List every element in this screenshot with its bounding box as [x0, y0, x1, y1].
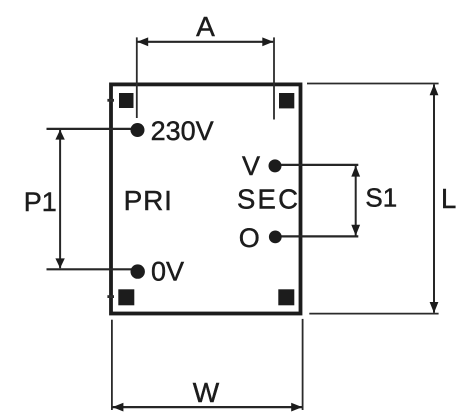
pin O dot	[269, 231, 282, 244]
pin nub on left edge top	[107, 99, 114, 102]
mounting pin square top-right	[279, 93, 294, 108]
mounting pin square top-left	[119, 93, 134, 108]
svg-text:P1: P1	[24, 187, 57, 217]
dimension L arrow up	[430, 84, 439, 95]
transformer outline	[111, 84, 301, 313]
svg-text:L: L	[441, 183, 456, 214]
pin nub on left edge bottom	[107, 295, 114, 298]
dimension L extension line bottom	[309, 313, 438, 315]
svg-text:0V: 0V	[151, 257, 184, 287]
pin 0V dot	[131, 264, 145, 278]
mounting pin square bottom-right	[278, 289, 294, 305]
dimension W arrow right	[291, 403, 302, 412]
svg-text:SEC: SEC	[237, 184, 300, 215]
dimension P1 arrow down	[55, 258, 64, 268]
dimension A extension line left	[136, 37, 138, 118]
dimension A extension line right	[273, 37, 275, 119]
wire O lead	[275, 235, 358, 237]
wire V lead	[275, 164, 358, 166]
svg-text:V: V	[242, 151, 260, 181]
svg-text:PRI: PRI	[124, 185, 173, 216]
dimension S1 line	[355, 166, 357, 236]
pin V dot	[269, 159, 282, 172]
dimension S1 arrow down	[351, 225, 360, 236]
dimension L line	[433, 85, 435, 313]
dimension W arrow left	[112, 403, 123, 412]
dimension A line	[137, 41, 273, 43]
pin 230V dot	[131, 123, 145, 137]
svg-text:O: O	[239, 223, 260, 253]
wire 0V lead	[47, 268, 138, 270]
svg-text:S1: S1	[365, 182, 397, 212]
svg-text:W: W	[193, 377, 220, 408]
wire 230V lead	[47, 128, 138, 130]
svg-text:230V: 230V	[151, 116, 214, 146]
dimension A arrow right	[262, 37, 273, 46]
dimension W line	[112, 406, 302, 408]
dimension P1 arrow up	[55, 130, 64, 140]
dimension P1 line	[59, 130, 61, 269]
dimension W extension line left	[111, 320, 113, 410]
svg-text:A: A	[196, 11, 215, 42]
dimension A arrow left	[137, 37, 148, 46]
dimension L arrow down	[430, 302, 439, 313]
mounting pin square bottom-left	[118, 289, 134, 305]
dimension W extension line right	[302, 319, 304, 410]
dimension L extension line top	[307, 83, 439, 85]
dimension S1 arrow up	[351, 166, 360, 177]
